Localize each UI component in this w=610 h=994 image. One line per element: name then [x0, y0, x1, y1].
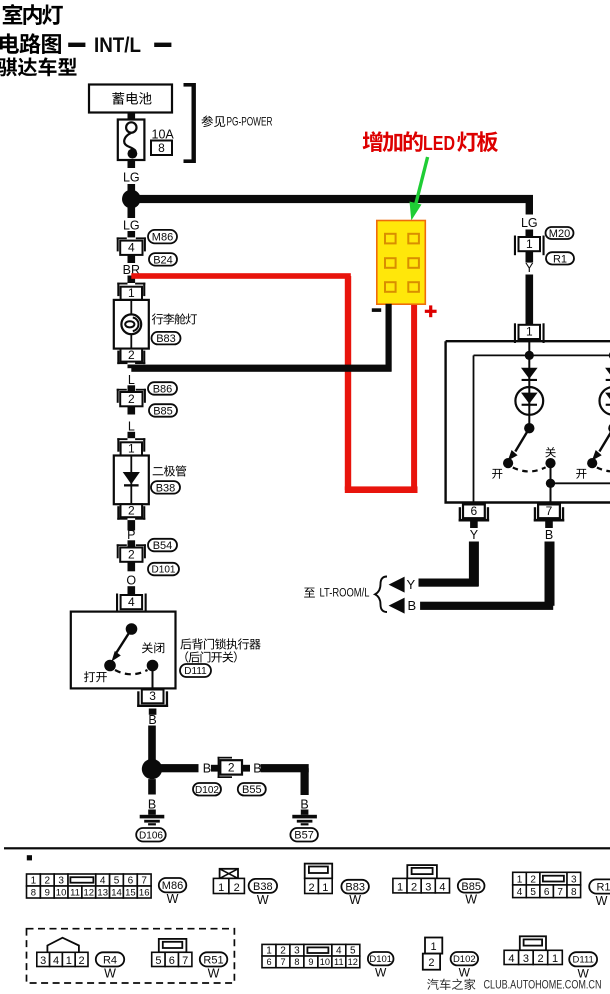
svg-text:LG: LG — [521, 216, 538, 230]
svg-text:5: 5 — [155, 955, 161, 967]
svg-text:10: 10 — [56, 887, 67, 898]
svg-text:B85: B85 — [461, 881, 481, 893]
svg-text:B86: B86 — [153, 384, 173, 396]
svg-text:B: B — [545, 528, 553, 542]
svg-text:M86: M86 — [162, 880, 183, 892]
svg-text:D111: D111 — [184, 666, 207, 677]
svg-text:6: 6 — [169, 955, 175, 967]
svg-text:3: 3 — [571, 874, 577, 885]
svg-text:M86: M86 — [152, 232, 173, 244]
svg-text:W: W — [349, 893, 361, 907]
svg-text:W: W — [465, 893, 477, 907]
svg-text:6: 6 — [128, 875, 134, 886]
svg-text:5: 5 — [114, 875, 120, 886]
svg-text:CLUB.AUTOHOME.COM.CN: CLUB.AUTOHOME.COM.CN — [484, 980, 602, 992]
svg-text:4: 4 — [128, 241, 135, 255]
svg-text:W: W — [167, 892, 179, 906]
svg-text:D102: D102 — [195, 785, 219, 796]
svg-text:W: W — [578, 967, 590, 981]
svg-text:3: 3 — [149, 689, 156, 703]
svg-text:2: 2 — [128, 348, 135, 362]
svg-text:10A: 10A — [152, 128, 175, 142]
svg-text:2: 2 — [128, 392, 135, 406]
svg-text:6: 6 — [544, 887, 550, 898]
svg-text:2: 2 — [45, 875, 51, 886]
svg-text:PG-POWER: PG-POWER — [227, 115, 273, 129]
svg-text:1: 1 — [322, 882, 328, 894]
svg-text:B: B — [203, 761, 211, 775]
svg-text:1: 1 — [266, 945, 272, 956]
svg-text:B24: B24 — [153, 254, 173, 266]
svg-text:4: 4 — [508, 953, 514, 965]
svg-text:9: 9 — [45, 887, 50, 898]
svg-text:W: W — [375, 966, 387, 980]
svg-text:D106: D106 — [139, 830, 163, 841]
svg-text:INT/L: INT/L — [94, 34, 141, 57]
svg-text:5: 5 — [350, 945, 356, 956]
svg-text:2: 2 — [428, 957, 434, 969]
svg-text:B: B — [148, 798, 156, 812]
svg-text:B38: B38 — [156, 482, 176, 494]
svg-text:3: 3 — [425, 881, 431, 893]
svg-text:1: 1 — [397, 881, 403, 893]
svg-text:W: W — [459, 966, 471, 980]
svg-text:LG: LG — [123, 171, 140, 185]
svg-text:11: 11 — [334, 957, 344, 967]
svg-text:2: 2 — [411, 881, 417, 893]
svg-text:P: P — [127, 528, 135, 542]
svg-text:L: L — [128, 373, 135, 387]
svg-text:7: 7 — [546, 504, 553, 518]
svg-text:5: 5 — [530, 887, 536, 898]
svg-text:4: 4 — [100, 875, 106, 886]
svg-text:M20: M20 — [549, 228, 570, 240]
svg-text:7: 7 — [182, 955, 188, 967]
svg-text:1: 1 — [218, 882, 224, 894]
svg-text:4: 4 — [53, 955, 59, 967]
svg-text:D101: D101 — [369, 954, 392, 965]
svg-text:O: O — [126, 574, 136, 588]
svg-text:Y: Y — [470, 528, 479, 542]
svg-text:LG: LG — [123, 219, 140, 233]
svg-text:Y: Y — [525, 261, 534, 275]
svg-text:8: 8 — [31, 887, 36, 898]
svg-text:D101: D101 — [152, 565, 176, 576]
svg-text:3: 3 — [523, 953, 529, 965]
svg-text:B55: B55 — [242, 784, 262, 796]
svg-text:2: 2 — [280, 945, 286, 956]
svg-text:1: 1 — [526, 237, 533, 251]
svg-text:2: 2 — [309, 882, 315, 894]
svg-text:R4: R4 — [103, 954, 117, 966]
svg-text:13: 13 — [97, 887, 108, 898]
svg-text:B57: B57 — [294, 830, 314, 842]
svg-text:B: B — [148, 713, 156, 727]
svg-text:2: 2 — [79, 955, 85, 967]
svg-text:6: 6 — [266, 957, 271, 967]
svg-text:LED: LED — [423, 133, 455, 155]
svg-text:B83: B83 — [345, 882, 365, 894]
svg-text:3: 3 — [40, 955, 46, 967]
svg-text:2: 2 — [234, 882, 240, 894]
svg-text:7: 7 — [141, 875, 147, 886]
svg-text:Y: Y — [407, 577, 416, 592]
svg-text:1: 1 — [517, 874, 523, 885]
svg-text:8: 8 — [571, 887, 577, 898]
svg-text:W: W — [208, 967, 220, 981]
svg-text:3: 3 — [58, 875, 64, 886]
svg-text:4: 4 — [336, 945, 342, 956]
svg-text:B83: B83 — [156, 333, 176, 345]
svg-text:16: 16 — [139, 887, 150, 898]
svg-text:1: 1 — [526, 325, 533, 339]
svg-text:8: 8 — [158, 141, 165, 155]
svg-text:B85: B85 — [153, 406, 173, 418]
svg-text:7: 7 — [280, 957, 285, 967]
svg-text:W: W — [257, 893, 269, 907]
svg-text:9: 9 — [308, 957, 313, 967]
svg-text:W: W — [104, 967, 116, 981]
svg-text:1: 1 — [66, 955, 72, 967]
svg-text:12: 12 — [84, 887, 95, 898]
svg-text:3: 3 — [294, 945, 300, 956]
svg-text:6: 6 — [471, 504, 478, 518]
svg-text:2: 2 — [128, 504, 135, 518]
svg-text:1: 1 — [431, 941, 437, 953]
svg-text:B: B — [408, 598, 417, 613]
svg-text:14: 14 — [111, 887, 122, 898]
svg-text:2: 2 — [228, 761, 235, 775]
svg-text:8: 8 — [294, 957, 299, 967]
svg-text:4: 4 — [439, 881, 445, 893]
svg-text:2: 2 — [128, 547, 135, 561]
svg-text:1: 1 — [128, 286, 135, 300]
svg-text:2: 2 — [537, 953, 543, 965]
svg-text:1: 1 — [31, 875, 37, 886]
svg-text:D102: D102 — [453, 954, 476, 965]
svg-text:15: 15 — [125, 887, 136, 898]
svg-text:1: 1 — [552, 953, 558, 965]
svg-text:LT-ROOM/L: LT-ROOM/L — [320, 588, 370, 600]
svg-text:B: B — [300, 798, 308, 812]
svg-text:B38: B38 — [253, 881, 273, 893]
svg-text:7: 7 — [557, 887, 563, 898]
svg-text:11: 11 — [70, 887, 80, 898]
svg-text:1: 1 — [128, 441, 135, 455]
svg-text:2: 2 — [530, 874, 536, 885]
svg-text:B: B — [253, 761, 261, 775]
svg-text:R1: R1 — [596, 882, 610, 894]
svg-text:10: 10 — [320, 957, 330, 967]
svg-text:4: 4 — [517, 887, 523, 898]
svg-text:4: 4 — [128, 595, 135, 609]
svg-text:W: W — [596, 894, 608, 908]
svg-text:R51: R51 — [203, 954, 223, 966]
svg-text:12: 12 — [348, 957, 358, 967]
svg-text:D111: D111 — [573, 955, 594, 966]
svg-text:B54: B54 — [153, 540, 173, 552]
svg-text:R1: R1 — [553, 253, 567, 265]
svg-text:L: L — [128, 420, 135, 434]
